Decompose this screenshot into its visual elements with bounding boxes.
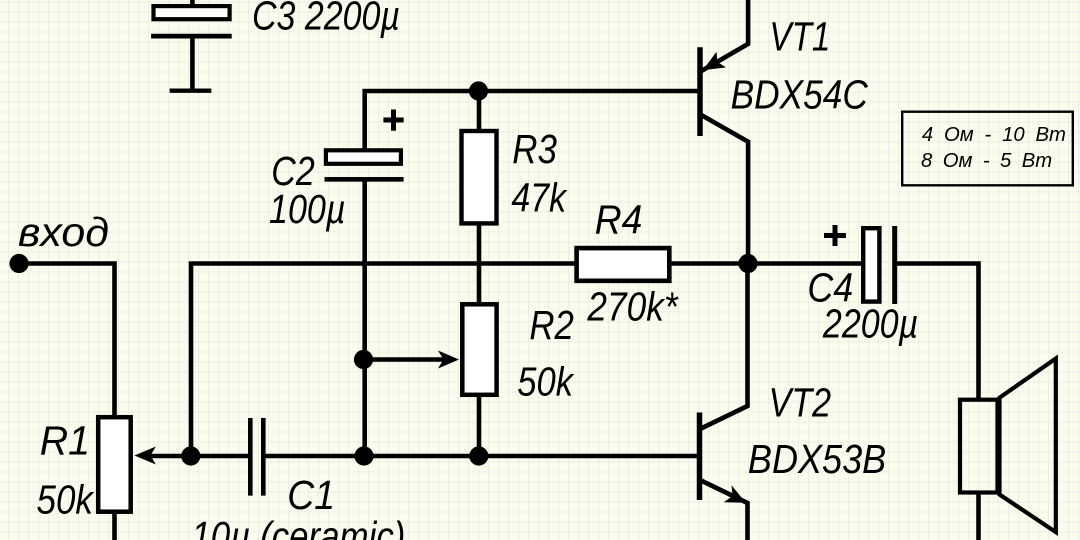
svg-text:BDX54C: BDX54C [731, 71, 869, 117]
svg-text:VT2: VT2 [769, 379, 832, 425]
svg-text:вход: вход [18, 209, 109, 255]
svg-text:R3: R3 [512, 126, 557, 172]
svg-text:C1: C1 [287, 472, 335, 518]
svg-text:4 Ом - 10 Вт: 4 Ом - 10 Вт [922, 124, 1066, 146]
svg-text:R2: R2 [529, 302, 574, 348]
svg-text:BDX53B: BDX53B [748, 436, 886, 482]
svg-text:50k: 50k [37, 477, 95, 523]
svg-text:R4: R4 [595, 197, 643, 243]
svg-text:2200µ: 2200µ [822, 301, 918, 347]
svg-text:8 Ом - 5 Вт: 8 Ом - 5 Вт [921, 150, 1052, 172]
svg-text:VT1: VT1 [769, 14, 830, 60]
svg-text:R1: R1 [40, 418, 90, 464]
svg-text:100µ: 100µ [269, 186, 346, 232]
svg-text:270k*: 270k* [587, 284, 679, 330]
svg-text:50k: 50k [517, 359, 574, 405]
svg-text:10µ (ceramic): 10µ (ceramic) [191, 513, 405, 540]
svg-text:47k: 47k [511, 174, 567, 220]
svg-text:C3 2200µ: C3 2200µ [252, 0, 400, 39]
